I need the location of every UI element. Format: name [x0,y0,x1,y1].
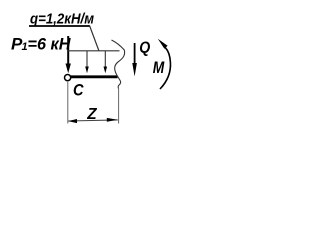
force P1 arrow [66,36,71,73]
dimension extension line right [118,89,120,124]
force Q arrow [132,43,137,77]
svg-text:q=1,2кН/м: q=1,2кН/м [30,10,94,27]
hinge circle at point C [65,75,71,81]
distributed load arrow 2 [104,51,108,73]
svg-text:Q: Q [139,39,150,56]
beam [71,75,118,78]
leader diagonal from q underline to load line [90,26,99,51]
distributed load arrow 1 [85,51,89,73]
dimension extension line left [67,82,69,124]
svg-text:=6 кН: =6 кН [28,34,72,53]
svg-text:Z: Z [86,106,97,123]
svg-text:M: M [153,59,166,77]
moment M arc [158,39,171,89]
cut squiggle at beam right end [112,40,125,89]
dimension line z [68,118,118,123]
distributed load top line [68,50,120,52]
underline of q label [29,25,90,27]
svg-text:C: C [73,81,84,100]
